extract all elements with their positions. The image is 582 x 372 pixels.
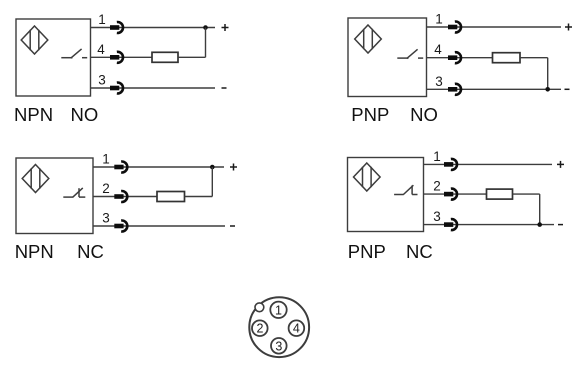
wire pin2 to resistor <box>93 196 157 198</box>
svg-text:1: 1 <box>435 12 443 27</box>
wire pin1 horizontal <box>424 163 553 165</box>
wire vertical up to + rail <box>205 28 207 58</box>
svg-text:PNP: PNP <box>351 104 389 125</box>
terminal + <box>230 164 237 171</box>
wire resistor to vertical <box>185 196 213 198</box>
svg-text:1: 1 <box>433 149 441 164</box>
svg-text:4: 4 <box>97 42 105 57</box>
wire pin4 to resistor <box>427 57 493 59</box>
connector plug pin3 <box>110 83 123 94</box>
proximity sensor symbol U1 <box>21 26 48 54</box>
sensor box U1 <box>16 19 91 96</box>
node junction dot on pin3 <box>537 222 542 227</box>
proximity sensor symbol U2 <box>355 25 382 53</box>
wire pin3 horizontal <box>93 225 225 227</box>
svg-text:3: 3 <box>275 339 282 353</box>
keyway notch circle <box>255 303 264 312</box>
connector plug pin1 <box>444 159 457 170</box>
connector plug pin3 <box>114 221 127 232</box>
wire pin3 horizontal <box>424 224 555 226</box>
load resistor RL <box>487 189 513 199</box>
connector plug pin1 <box>448 22 461 33</box>
svg-text:1: 1 <box>98 12 106 27</box>
proximity sensor symbol U4 <box>354 163 381 191</box>
proximity sensor symbol U3 <box>22 165 49 193</box>
pin 2 circle <box>252 320 268 336</box>
svg-text:2: 2 <box>102 181 110 196</box>
connector plug pin4 <box>448 52 461 63</box>
svg-text:4: 4 <box>293 322 300 336</box>
pin 3 circle <box>271 338 287 354</box>
svg-text:3: 3 <box>98 73 106 88</box>
wire resistor to vertical <box>513 193 540 195</box>
sensor box U2 <box>348 18 427 97</box>
node junction dot on pin1 <box>210 165 215 170</box>
pin 4 circle <box>289 320 305 336</box>
connector plug pin1 <box>110 22 123 33</box>
NO switch contact <box>397 49 423 58</box>
connector plug pin2 <box>444 189 457 200</box>
wire pin1 horizontal <box>93 166 224 168</box>
svg-text:1: 1 <box>275 303 282 317</box>
node junction dot on pin1 <box>203 25 208 30</box>
terminal + <box>557 161 564 168</box>
wire resistor to vertical <box>520 57 548 59</box>
terminal - <box>222 87 227 89</box>
svg-text:2: 2 <box>257 322 264 336</box>
svg-text:3: 3 <box>102 211 110 226</box>
svg-text:NC: NC <box>77 241 104 262</box>
wire vertical down to - rail <box>547 58 549 90</box>
load resistor RL <box>493 53 521 63</box>
svg-text:3: 3 <box>433 209 441 224</box>
NC switch contact <box>63 188 85 197</box>
svg-text:NPN: NPN <box>15 241 54 262</box>
NO switch contact <box>61 49 87 58</box>
svg-text:NPN: NPN <box>14 104 53 125</box>
svg-text:NO: NO <box>410 104 438 125</box>
wire pin1 horizontal <box>91 27 216 29</box>
wire pin1 horizontal <box>427 26 562 28</box>
node junction dot on pin3 <box>545 87 550 92</box>
wire vertical up to + rail <box>211 167 213 197</box>
terminal + <box>565 24 572 31</box>
wire pin3 horizontal <box>427 88 562 90</box>
sensor box U3 <box>16 158 93 234</box>
wire resistor to vertical <box>178 56 206 58</box>
svg-text:2: 2 <box>433 179 441 194</box>
wire vertical down to - rail <box>539 194 541 225</box>
NC switch contact <box>394 185 417 194</box>
wire pin3 horizontal <box>91 87 216 89</box>
terminal - <box>230 225 235 227</box>
connector plug pin1 <box>114 162 127 173</box>
connector plug pin3 <box>444 219 457 230</box>
terminal + <box>222 24 229 31</box>
sensor box U4 <box>348 158 424 232</box>
svg-text:1: 1 <box>102 152 110 167</box>
pin 1 circle <box>270 302 286 318</box>
load resistor RL <box>152 52 178 62</box>
wire pin4 to resistor <box>91 56 153 58</box>
terminal - <box>565 88 570 90</box>
svg-text:4: 4 <box>434 42 442 57</box>
connector plug pin2 <box>114 191 127 202</box>
svg-text:3: 3 <box>435 74 443 89</box>
connector plug pin4 <box>110 52 123 63</box>
wire pin2 to resistor <box>424 193 487 195</box>
connector plug pin3 <box>448 84 461 95</box>
svg-text:PNP: PNP <box>348 241 386 262</box>
load resistor RL <box>157 192 185 202</box>
terminal - <box>558 224 563 226</box>
connector body circle <box>249 297 309 357</box>
svg-text:NC: NC <box>406 241 433 262</box>
svg-text:NO: NO <box>71 104 99 125</box>
